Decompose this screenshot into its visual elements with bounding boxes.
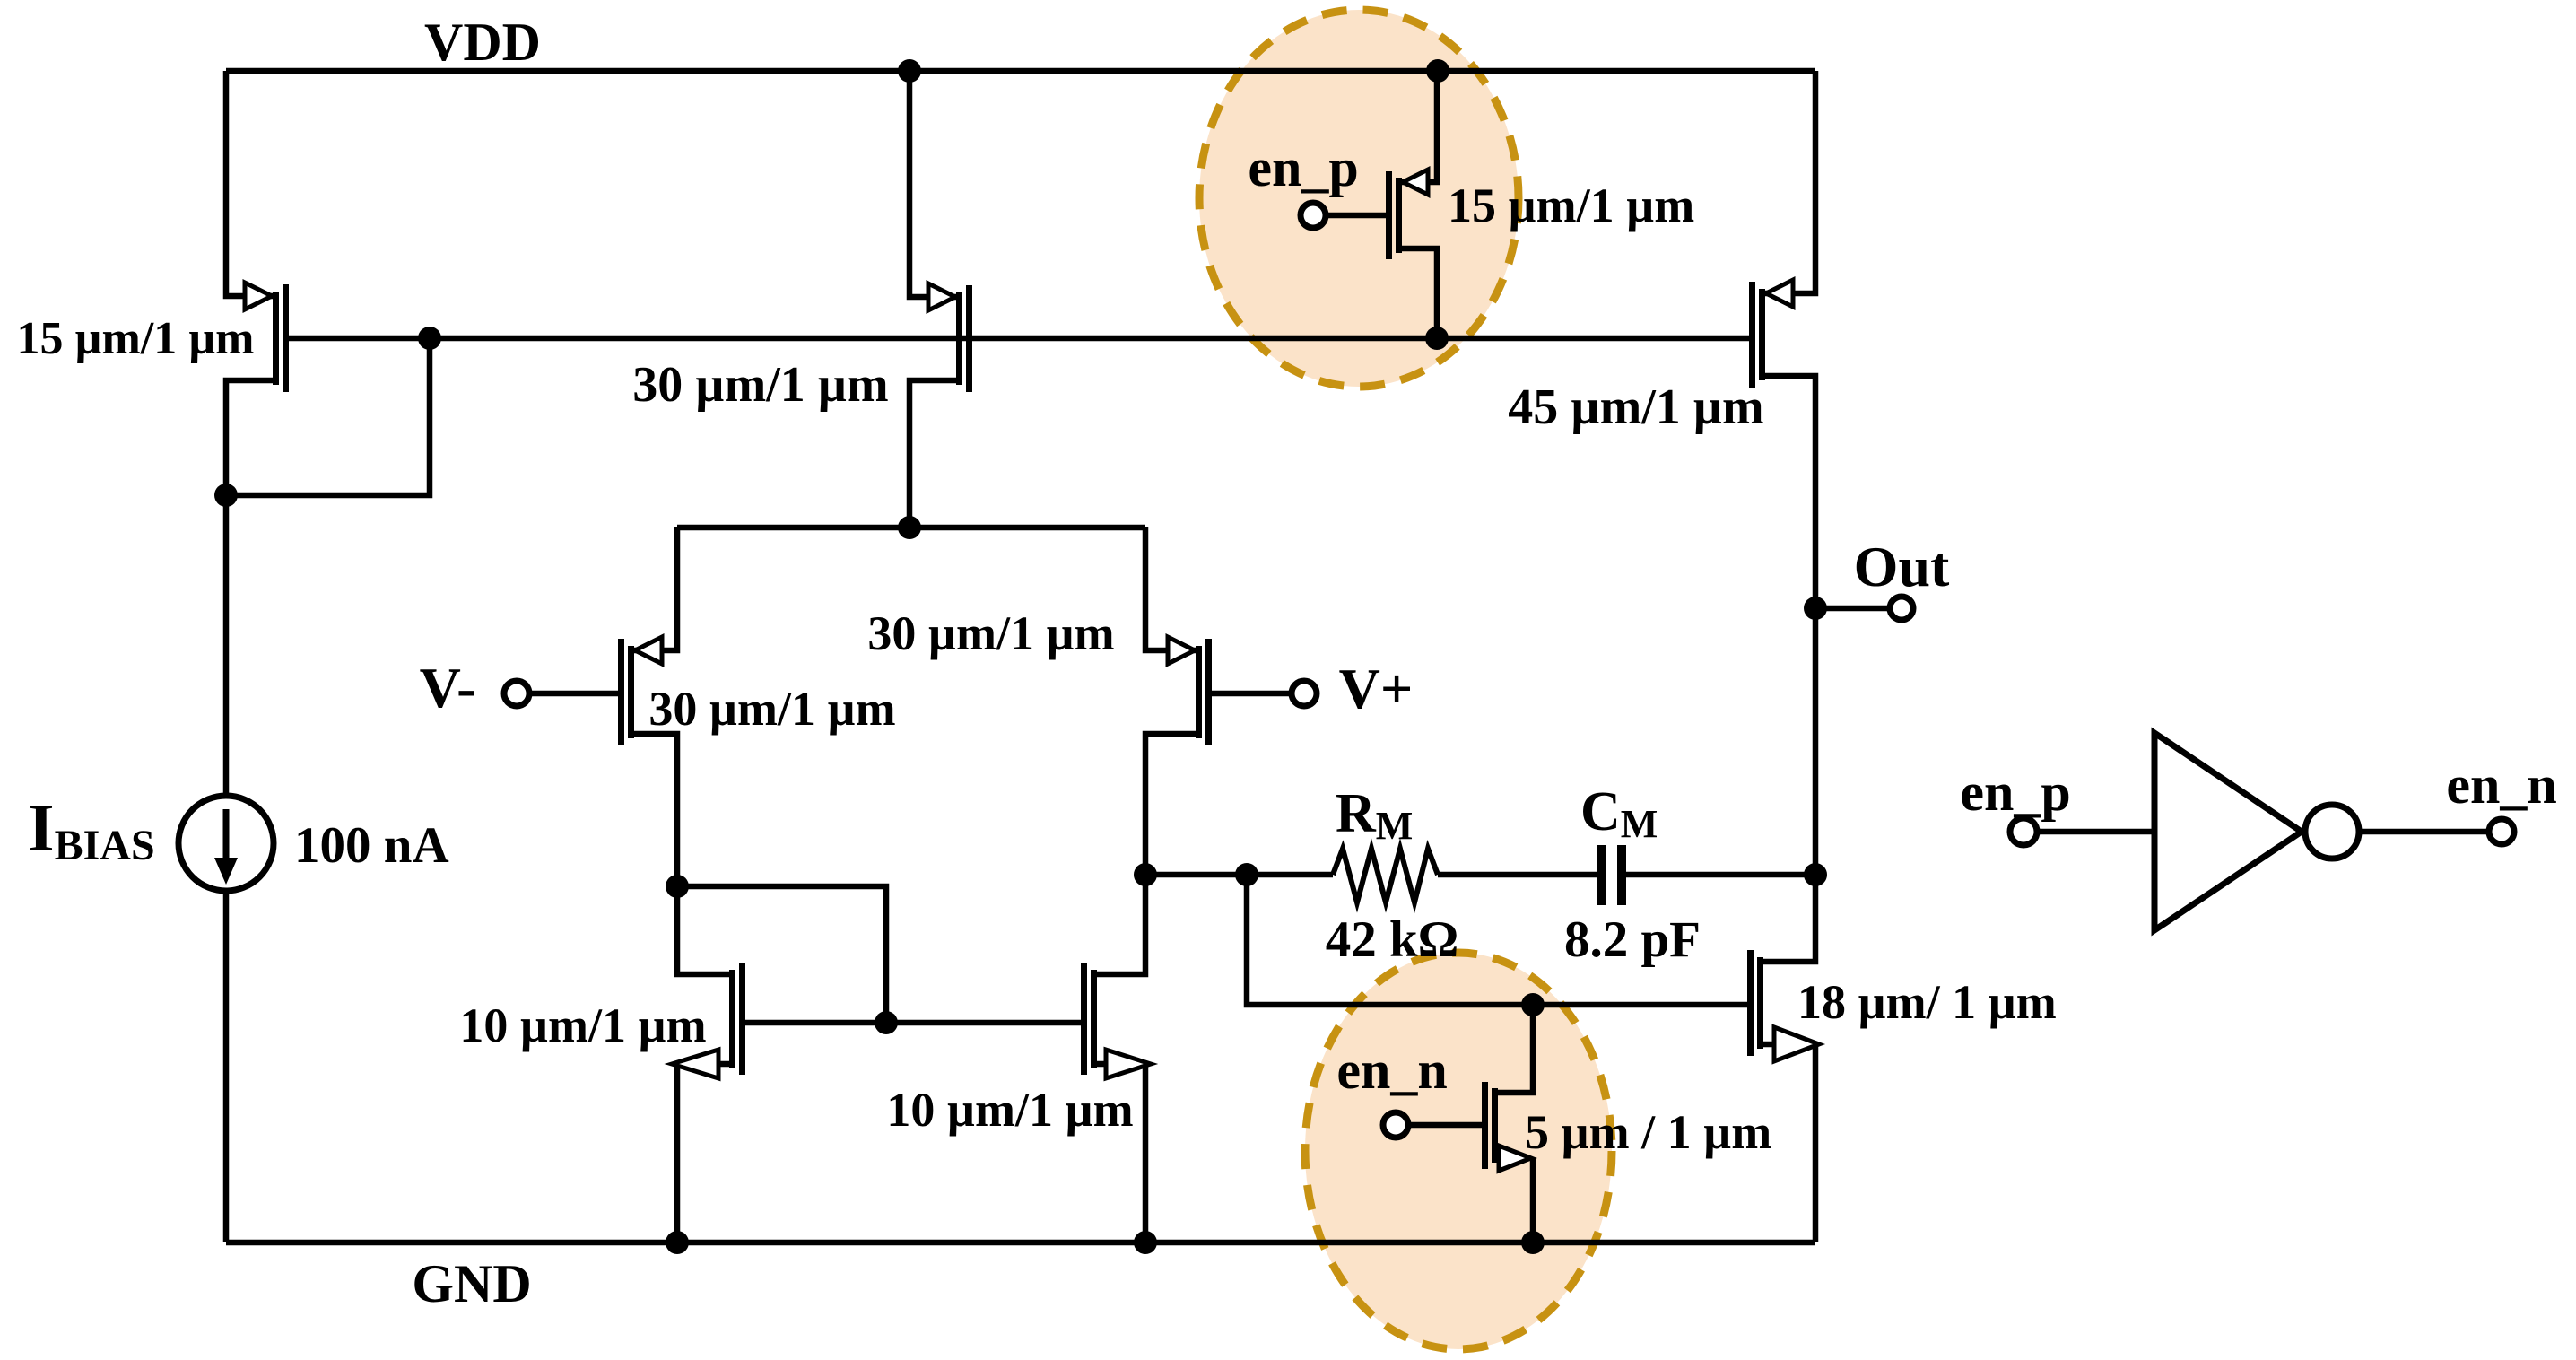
wire left bias column top (VDD to M1 source) [226, 71, 273, 296]
terminal inverter output en_n [2489, 819, 2514, 844]
current source IBIAS 100nA [178, 796, 274, 891]
resistor RM 42k [1333, 849, 1438, 902]
svg-text:V-: V- [420, 656, 476, 719]
wire inverter input [2037, 829, 2154, 835]
transistor M10 NMOS 18um/1um second stage [1747, 950, 1763, 1056]
svg-text:15 µm/1 µm: 15 µm/1 µm [16, 313, 254, 364]
wire comp row left [1145, 872, 1333, 878]
svg-text:10 µm/1 µm: 10 µm/1 µm [886, 1083, 1133, 1137]
junction M4 drain / M7 diode tap [666, 875, 689, 898]
wire M2 drain to diff tail rail [909, 380, 956, 527]
wire right diff source [1145, 527, 1196, 650]
wire NMOS mirror gate rail [744, 1020, 1081, 1026]
svg-text:en_n: en_n [1336, 1041, 1447, 1100]
junction comp node / M5 drain [1134, 863, 1157, 886]
wire diode loop of M1 [226, 338, 430, 495]
svg-text:8.2 pF: 8.2 pF [1564, 911, 1701, 968]
svg-text:45 µm/1 µm: 45 µm/1 µm [1508, 379, 1763, 435]
svg-text:100 nA: 100 nA [294, 817, 449, 874]
junction gate rail / en_p drain [1425, 327, 1449, 350]
wire en_p drain to gate rail [1402, 248, 1437, 338]
wire en_n source to GND [1498, 1158, 1533, 1242]
svg-text:30 µm/1 µm: 30 µm/1 µm [867, 606, 1114, 660]
terminal V+ [1292, 681, 1317, 706]
terminal en_n at M9 [1383, 1112, 1408, 1138]
wire M7 diode connection [677, 886, 886, 1023]
wire comp row right (CM to out column) [1626, 872, 1815, 878]
junction GND / M8 source [1134, 1231, 1157, 1254]
svg-text:en_n: en_n [2446, 755, 2556, 815]
transistor M3 en_p PMOS 15um/1um [1386, 171, 1402, 259]
junction second stage gate / en_n drain [1521, 993, 1545, 1016]
wire Out stub [1815, 606, 1891, 612]
wire right diff drain down to comp node [1145, 734, 1196, 875]
transistor M5 PMOS 30um/1um input V+ [1196, 639, 1212, 745]
junction comp node / second stage gate branch [1235, 863, 1258, 886]
svg-text:5 µm / 1 µm: 5 µm / 1 µm [1525, 1105, 1771, 1159]
junction diff tail rail / M2 drain [898, 516, 921, 539]
wire GND rail [226, 1240, 1815, 1246]
transistor M6 PMOS 45um/1um second stage [1749, 282, 1765, 388]
junction gate rail / M1 diode loop [418, 327, 441, 350]
wire inverter output [2361, 829, 2489, 835]
wire M10 source to GND [1763, 1044, 1815, 1242]
transistor M4 PMOS 30um/1um input V- [618, 639, 634, 745]
inverter en_p to en_n [2154, 733, 2359, 930]
wire left diff source [634, 527, 677, 650]
wire M6 drain down output column [1763, 376, 1815, 962]
junction M1 drain / diode loop [214, 484, 238, 507]
terminal Out [1890, 597, 1913, 620]
capacitor CM 8.2pF [1597, 845, 1626, 905]
wire left diff drain down to M7 drain [634, 734, 729, 974]
svg-text:18 µm/ 1 µm: 18 µm/ 1 µm [1797, 975, 2057, 1029]
transistor M1 PMOS 15um/1um diode-connected [273, 284, 289, 392]
junction VDD / M2 source [898, 59, 921, 83]
svg-text:en_p: en_p [1248, 138, 1358, 197]
svg-text:15 µm/1 µm: 15 µm/1 µm [1448, 179, 1694, 232]
highlight ellipse around en_n transistor [1305, 953, 1612, 1349]
wire M2 source from VDD [909, 71, 956, 297]
wire second stage gate branch [1247, 875, 1747, 1005]
transistor M2 PMOS 30um/1um mirror [956, 285, 972, 392]
wire comp row middle (RM to CM) [1438, 872, 1597, 878]
svg-text:10 µm/1 µm: 10 µm/1 µm [459, 998, 706, 1052]
terminal V- [504, 681, 529, 706]
wire VDD rail [226, 68, 1815, 74]
wire en_p source from VDD [1402, 71, 1437, 182]
svg-text:30 µm/1 µm: 30 µm/1 µm [648, 682, 895, 736]
highlight ellipse around en_p transistor [1199, 10, 1519, 387]
terminal en_p at M3 [1301, 203, 1326, 228]
svg-text:en_p: en_p [1960, 763, 2070, 822]
junction output column / CM [1804, 863, 1827, 886]
wire M8 source to GND [1097, 1064, 1145, 1242]
wire M8 drain up to comp node [1097, 875, 1145, 974]
svg-text:GND: GND [412, 1254, 531, 1313]
wire en_p gate lead [1326, 213, 1386, 219]
wire V+ gate lead [1212, 691, 1291, 697]
svg-text:42 kΩ: 42 kΩ [1326, 911, 1459, 968]
svg-text:30 µm/1 µm: 30 µm/1 µm [632, 357, 888, 413]
transistor M7 NMOS 10um/1um mirror left [729, 963, 745, 1075]
wire en_n gate lead [1409, 1122, 1482, 1129]
svg-text:Out: Out [1854, 535, 1950, 598]
wire V- gate lead [530, 691, 618, 697]
junction VDD / en_p source [1426, 59, 1449, 83]
wire M6 source from VDD [1765, 71, 1815, 293]
wire gate bias rail (M1 gate to M6 gate) [288, 336, 1749, 342]
svg-text:V+: V+ [1339, 657, 1414, 720]
wire en_n drain from second stage gate [1498, 1005, 1533, 1093]
transistor M8 NMOS 10um/1um mirror right [1081, 963, 1097, 1075]
junction output column / Out stub [1804, 597, 1827, 620]
junction mirror gate rail / diode tap [875, 1011, 898, 1034]
wire M1 drain down to IBIAS and GND [226, 380, 273, 1242]
terminal inverter input en_p [2010, 818, 2037, 845]
wire diff pair tail rail [677, 525, 1145, 531]
junction GND / M7 source [666, 1231, 689, 1254]
transistor M9 en_n NMOS 5um/1um [1482, 1082, 1498, 1169]
junction GND / en_n source [1521, 1231, 1545, 1254]
svg-text:VDD: VDD [424, 13, 541, 72]
wire M7 source to GND [677, 1064, 729, 1242]
